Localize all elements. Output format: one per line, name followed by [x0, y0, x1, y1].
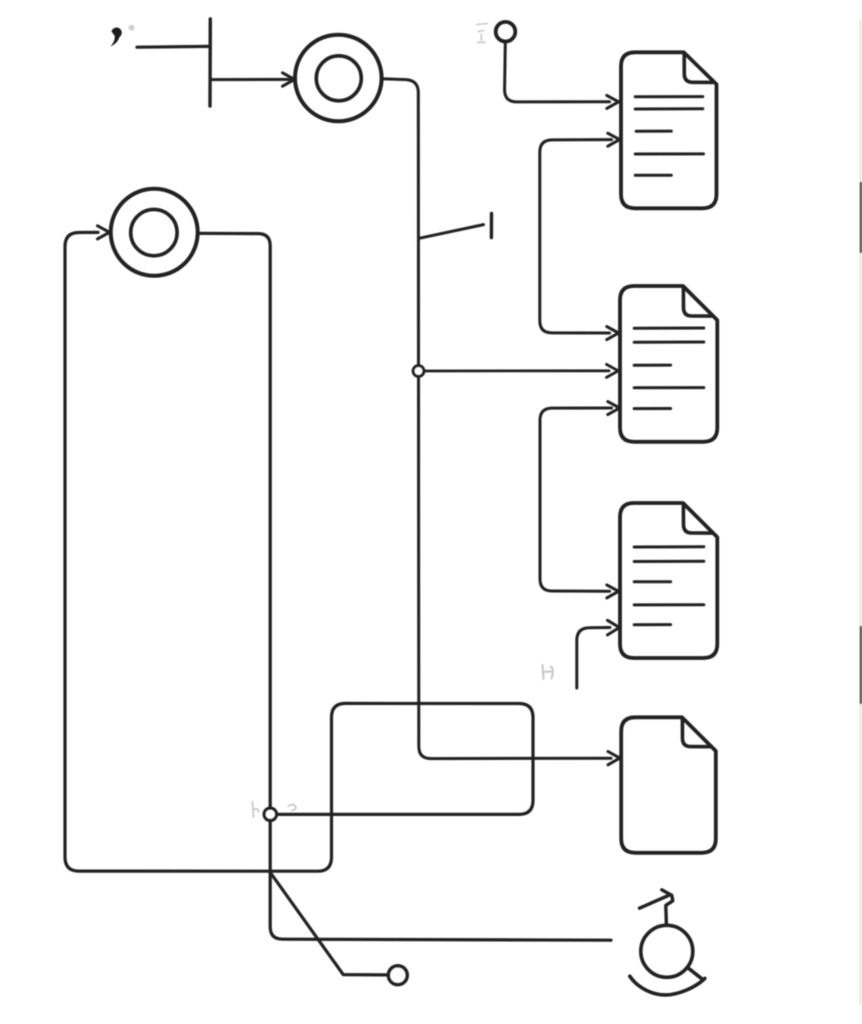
arrowhead into doc3 (edge bottom) — [607, 585, 619, 598]
big left loop wire (C2 feedback) — [65, 232, 533, 871]
document doc1 outline — [621, 52, 717, 208]
document doc2 outline — [620, 286, 717, 442]
arrowhead into doc2 (edge bottom) — [607, 327, 619, 340]
doc1 text line 1 — [635, 95, 703, 98]
small circle node S1 — [496, 22, 516, 42]
magnifier handle — [687, 967, 701, 978]
right edge dark mark lower — [860, 627, 862, 703]
hook arrow into doc3 — [577, 628, 610, 689]
wire C1 to doc4 (long vertical) — [382, 79, 611, 759]
end node small circle S2 — [388, 966, 407, 985]
start tick horizontal wire — [137, 45, 209, 49]
arrowhead into C1 — [283, 73, 295, 86]
process circle C1 outer — [295, 35, 382, 122]
right edge dark mark upper — [860, 183, 862, 252]
magnifier base arc — [630, 976, 705, 995]
doc1 fold flap — [684, 53, 712, 82]
doc3 fold flap — [683, 504, 711, 533]
doc2 fold flap — [683, 287, 711, 316]
faint scribble near S1 — [477, 24, 488, 43]
junction node J2 — [264, 808, 276, 820]
doc1 text line 5 (short) — [635, 174, 671, 177]
arrowhead into C2 — [98, 226, 110, 239]
document doc4 outline (empty) — [621, 717, 716, 853]
wire S1 to doc1 — [505, 42, 610, 102]
doc1 text line 3 (short) — [636, 130, 671, 133]
edge doc1 to doc2 — [540, 140, 612, 333]
junction node J1 on C1 wire — [413, 366, 424, 377]
comma mark — [111, 28, 122, 47]
doc2 text line 4 — [634, 386, 704, 389]
arrowhead into doc4 — [608, 752, 620, 765]
flag arrow shaft — [640, 895, 669, 908]
doc1 text line 4 — [635, 152, 703, 155]
diagonal wire to end circle — [271, 874, 388, 975]
doc3 text line 3 (short) — [634, 580, 670, 583]
doc2 text line 1 — [634, 327, 704, 330]
arrowhead S1-doc1 — [607, 95, 619, 108]
arrowhead J1-doc2 — [607, 364, 619, 377]
callout line — [420, 225, 484, 239]
arrow wire J1 to doc2 — [425, 369, 610, 372]
wire C2 right down to bottom rail — [198, 233, 611, 940]
arrowhead into doc1 (edge top) — [608, 133, 620, 146]
arrow wire to circle C1 — [212, 78, 292, 81]
doc2 text line 3 (short) — [634, 364, 670, 367]
process circle C1 inner — [316, 56, 361, 101]
arrowhead into doc2 (edge top) — [608, 402, 620, 415]
doc3 text line 4 — [634, 603, 704, 606]
doc3 text line 5 (short) — [634, 623, 670, 626]
faint H mark — [543, 665, 553, 679]
doc3 text line 1 — [634, 545, 704, 548]
callout bar — [490, 214, 494, 238]
process circle C2 outer — [111, 189, 198, 276]
doc2 text line 5 (short) — [634, 407, 670, 410]
gray dot — [129, 25, 135, 31]
magnifier icon circle — [641, 925, 693, 977]
start tick vertical bar — [208, 19, 212, 106]
document doc3 outline — [620, 503, 717, 658]
arrowhead hook-doc3 — [608, 620, 620, 635]
process circle C2 inner — [131, 209, 177, 255]
flag arrowhead and stem — [662, 890, 673, 925]
doc3 text line 2 — [634, 560, 704, 563]
edge doc2 to doc3 — [540, 408, 612, 591]
faint marks near J2 — [253, 802, 296, 817]
doc4 fold flap — [682, 718, 710, 746]
doc2 text line 2 — [634, 341, 704, 344]
right edge artifact line — [859, 20, 861, 1004]
doc1 text line 2 — [635, 107, 703, 110]
